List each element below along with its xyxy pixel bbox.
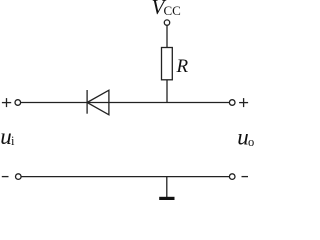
node VCC terminal circle bbox=[164, 20, 169, 25]
input terminal circle top left bbox=[15, 100, 21, 106]
wire resistor bottom to node A bbox=[166, 80, 168, 103]
svg-text:CC: CC bbox=[164, 3, 181, 18]
wire bottom horizontal rail bbox=[21, 176, 229, 178]
ground bar symbol bbox=[159, 197, 174, 200]
power VCC label bbox=[152, 0, 181, 19]
svg-text:o: o bbox=[248, 135, 254, 149]
svg-text:u: u bbox=[0, 124, 12, 149]
input terminal circle bottom left bbox=[15, 174, 21, 180]
ground wire stem bbox=[166, 177, 168, 197]
diode D cathode bar bbox=[86, 90, 88, 114]
minus sign left bbox=[2, 176, 9, 178]
plus sign left bbox=[2, 98, 11, 107]
minus sign right bbox=[242, 176, 249, 178]
plus sign right bbox=[239, 98, 248, 107]
svg-text:u: u bbox=[237, 124, 249, 149]
label uo output voltage bbox=[237, 124, 254, 149]
svg-text:R: R bbox=[176, 56, 189, 77]
label ui input voltage bbox=[0, 124, 15, 149]
wire VCC terminal to resistor top bbox=[166, 25, 168, 47]
output terminal circle bottom right bbox=[229, 174, 235, 180]
output terminal circle top right bbox=[229, 100, 235, 106]
resistor R bbox=[162, 48, 173, 80]
diode D triangle bbox=[87, 90, 109, 115]
wire top horizontal rail bbox=[21, 102, 230, 104]
svg-text:i: i bbox=[11, 134, 15, 148]
